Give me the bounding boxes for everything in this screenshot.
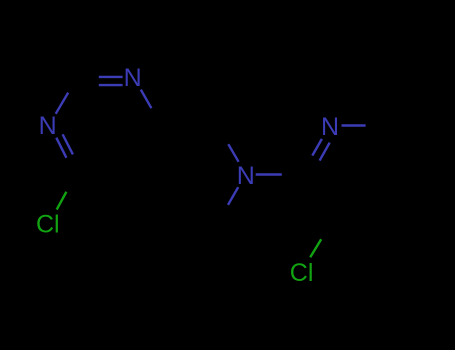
bond C4-Cl (Cl half) <box>57 192 67 210</box>
bond C2=N1 main line (N half) <box>99 76 123 78</box>
svg-text:Cl: Cl <box>290 259 314 287</box>
bond N3-C2 (N half) <box>56 93 68 114</box>
svg-text:N: N <box>39 112 57 140</box>
svg-text:N: N <box>237 162 255 190</box>
bond C6-N7 (N half) <box>228 187 238 205</box>
svg-text:N: N <box>124 64 142 92</box>
bond N1'=C2' main line (N half) <box>312 139 322 156</box>
bond N1'-C6' (N half) <box>342 124 366 127</box>
svg-text:N: N <box>321 113 339 141</box>
bond C8-N7 (N half) <box>228 144 238 162</box>
bond N1-C8a (N half) <box>141 90 152 109</box>
bond C2=N1 inner line (N half) <box>99 84 123 86</box>
bond N3=C4 inner line (N half) <box>63 134 73 154</box>
bond N1'=C2' inner line (N half) <box>320 143 330 161</box>
bond C3'-Cl (Cl half) <box>310 239 321 257</box>
bond N7-C2' (N half) <box>256 173 282 176</box>
bond N3=C4 main line (N half) <box>56 138 66 158</box>
svg-text:Cl: Cl <box>36 210 60 238</box>
